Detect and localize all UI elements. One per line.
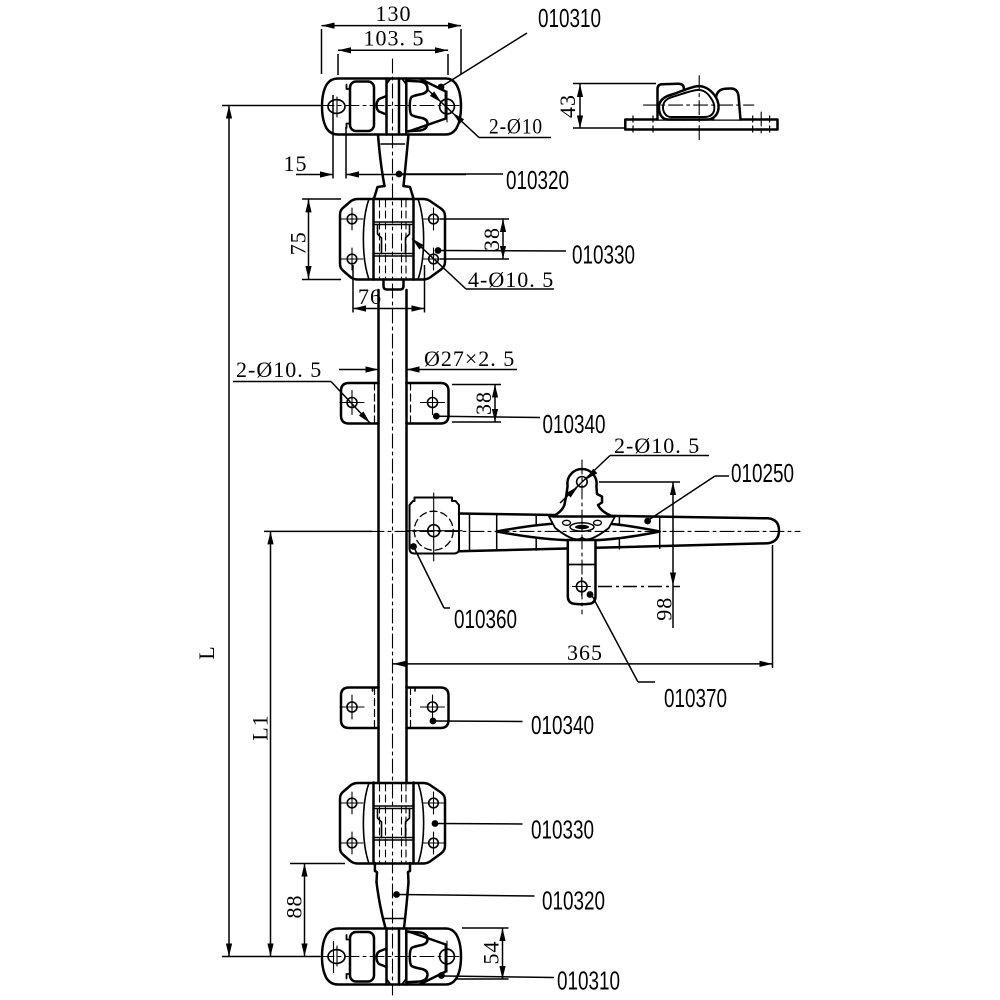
- svg-text:010330: 010330: [531, 817, 594, 845]
- svg-text:38: 38: [471, 391, 496, 415]
- svg-text:L1: L1: [248, 714, 273, 740]
- svg-text:010360: 010360: [454, 606, 517, 634]
- svg-text:38: 38: [479, 227, 504, 251]
- svg-text:98: 98: [652, 597, 677, 621]
- svg-text:103. 5: 103. 5: [364, 26, 425, 51]
- svg-text:010310: 010310: [538, 5, 601, 33]
- svg-text:15: 15: [284, 151, 308, 176]
- svg-text:88: 88: [282, 895, 307, 919]
- svg-text:2-Ø10: 2-Ø10: [489, 114, 543, 139]
- svg-text:Ø27×2. 5: Ø27×2. 5: [424, 346, 515, 371]
- svg-text:130: 130: [376, 1, 412, 26]
- svg-text:L: L: [194, 645, 219, 659]
- svg-text:010250: 010250: [731, 460, 794, 488]
- svg-text:010340: 010340: [531, 712, 594, 740]
- svg-text:010330: 010330: [572, 242, 635, 270]
- svg-text:365: 365: [567, 640, 603, 665]
- svg-text:76: 76: [358, 284, 382, 309]
- svg-text:010310: 010310: [557, 968, 620, 996]
- svg-text:2-Ø10. 5: 2-Ø10. 5: [614, 433, 700, 458]
- svg-text:010320: 010320: [506, 167, 569, 195]
- svg-text:010340: 010340: [543, 411, 606, 439]
- svg-text:43: 43: [555, 94, 580, 118]
- svg-text:010320: 010320: [542, 888, 605, 916]
- svg-text:75: 75: [286, 231, 311, 255]
- svg-text:54: 54: [479, 941, 504, 965]
- svg-text:2-Ø10. 5: 2-Ø10. 5: [236, 357, 322, 382]
- svg-text:4-Ø10. 5: 4-Ø10. 5: [468, 267, 554, 292]
- svg-text:010370: 010370: [664, 685, 727, 713]
